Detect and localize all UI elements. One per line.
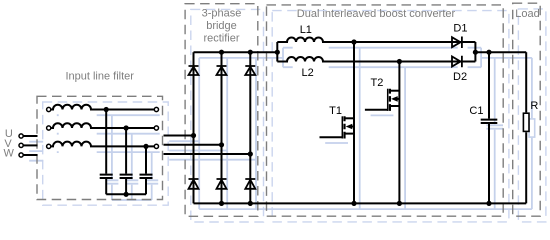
svg-text:Input line filter: Input line filter: [65, 70, 134, 82]
svg-text:rectifier: rectifier: [203, 33, 239, 45]
svg-text:W: W: [4, 148, 15, 160]
svg-text:L1: L1: [300, 24, 312, 36]
svg-text:3-phase: 3-phase: [202, 7, 242, 19]
svg-text:T2: T2: [371, 77, 384, 89]
svg-text:bridge: bridge: [206, 20, 237, 32]
svg-text:C1: C1: [469, 105, 483, 117]
svg-text:Dual interleaved boost convert: Dual interleaved boost converter: [297, 8, 456, 20]
svg-text:R: R: [530, 100, 538, 112]
svg-text:D1: D1: [453, 22, 467, 34]
svg-text:Load: Load: [515, 8, 539, 20]
svg-text:D2: D2: [453, 71, 467, 83]
svg-text:T1: T1: [329, 105, 342, 117]
svg-text:L2: L2: [302, 67, 314, 79]
